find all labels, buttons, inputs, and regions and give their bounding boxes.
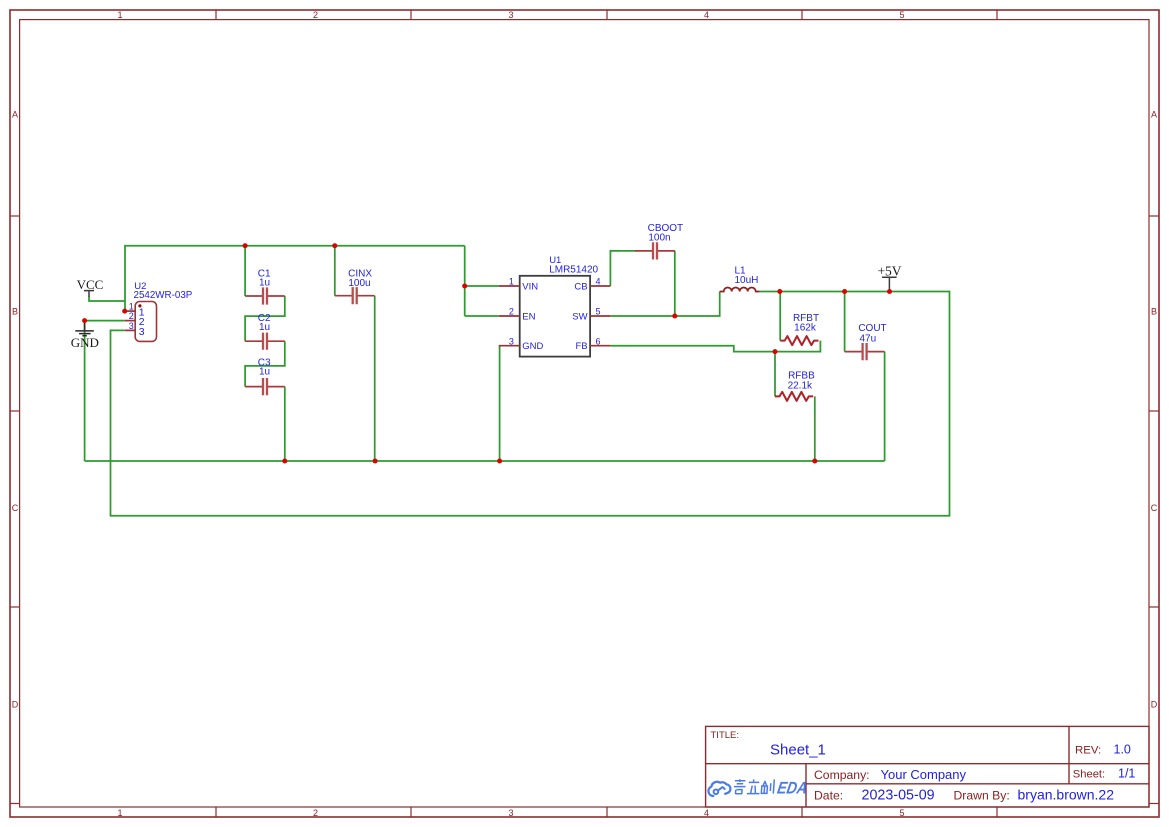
capacitor C3	[245, 378, 285, 395]
IC U1 pin names	[522, 281, 543, 352]
connector U2 pin stubs 1 2 3	[125, 311, 135, 330]
wire VCC to pin1 riser	[89, 297, 125, 302]
svg-text:4: 4	[704, 10, 709, 20]
svg-text:5: 5	[899, 10, 904, 20]
svg-text:3: 3	[508, 808, 513, 818]
IC U1 pin numbers	[509, 277, 601, 347]
svg-text:2: 2	[509, 307, 514, 317]
capacitor COUT	[845, 343, 885, 360]
svg-text:VIN: VIN	[522, 281, 538, 292]
border row ticks right	[1149, 216, 1159, 804]
svg-text:+5V: +5V	[877, 263, 901, 278]
svg-text:1: 1	[509, 277, 514, 287]
wire CB to CBOOT	[610, 251, 636, 286]
svg-text:1u: 1u	[259, 278, 270, 289]
svg-text:C: C	[1151, 503, 1158, 513]
wire CINX to ground rail	[374, 296, 376, 461]
wire to U1 VIN pin	[465, 285, 499, 287]
svg-text:A: A	[12, 110, 18, 120]
wire C1 to C2	[245, 296, 285, 341]
svg-text:D: D	[1151, 700, 1158, 710]
svg-text:1: 1	[117, 808, 122, 818]
wire CINX riser	[334, 246, 336, 296]
wire COUT to ground rail	[884, 352, 886, 461]
border column ticks top	[216, 10, 997, 20]
IC U1 pin stubs	[499, 286, 611, 346]
svg-text:2542WR-03P: 2542WR-03P	[134, 290, 193, 301]
capacitor C2	[245, 333, 285, 350]
wire ground rail	[85, 460, 885, 462]
svg-text:10uH: 10uH	[735, 275, 759, 286]
svg-text:D: D	[12, 700, 19, 710]
logo cloud icon	[708, 782, 730, 796]
IC U1 body	[520, 276, 590, 357]
wire U1 GND to ground rail	[499, 346, 501, 461]
ground symbol GND	[71, 321, 99, 350]
svg-text:A: A	[1151, 110, 1157, 120]
svg-text:5: 5	[595, 307, 600, 317]
border column labels bottom	[117, 808, 904, 818]
connector U2 outside pin numbers	[129, 301, 134, 331]
svg-text:bryan.brown.22: bryan.brown.22	[1018, 787, 1115, 803]
wire C2 to C3	[245, 341, 285, 386]
svg-text:VCC: VCC	[77, 277, 104, 292]
title block outline	[706, 726, 1149, 807]
svg-text:B: B	[1151, 307, 1157, 317]
svg-text:22.1k: 22.1k	[788, 381, 813, 392]
wire VIN drop to pin1/pin2	[464, 246, 466, 316]
svg-text:Sheet:: Sheet:	[1073, 768, 1105, 780]
border row labels right	[1151, 110, 1158, 710]
svg-text:TITLE:: TITLE:	[711, 730, 740, 741]
border row labels left	[12, 110, 19, 710]
wire C3 to ground rail	[284, 387, 286, 461]
wire COUT riser	[844, 292, 846, 352]
border column ticks bottom	[216, 807, 997, 817]
svg-text:EN: EN	[522, 311, 535, 322]
svg-text:GND: GND	[522, 341, 543, 352]
wire FB to divider	[610, 341, 820, 352]
wire RFBB top	[774, 352, 776, 397]
inductor L1	[720, 288, 760, 292]
resistor RFBT	[780, 336, 818, 345]
connector U2 body	[135, 302, 156, 342]
svg-text:100u: 100u	[348, 278, 370, 289]
svg-text:1.0: 1.0	[1114, 743, 1131, 757]
svg-text:2023-05-09: 2023-05-09	[862, 788, 935, 804]
svg-text:4: 4	[595, 277, 600, 287]
svg-text:100n: 100n	[648, 232, 670, 243]
svg-text:5: 5	[899, 808, 904, 818]
svg-text:C: C	[12, 503, 19, 513]
svg-text:47u: 47u	[859, 333, 876, 344]
wire RFBT riser	[779, 292, 781, 341]
svg-text:3: 3	[509, 336, 514, 346]
svg-text:3: 3	[508, 10, 513, 20]
svg-text:CB: CB	[574, 281, 587, 292]
svg-text:1: 1	[129, 301, 134, 311]
wire GND to pin2	[85, 320, 125, 322]
svg-text:1: 1	[117, 10, 122, 20]
svg-text:Drawn By:: Drawn By:	[954, 789, 1010, 803]
svg-text:2: 2	[129, 311, 134, 321]
power flag +5V	[877, 263, 901, 291]
svg-text:Sheet_1: Sheet_1	[770, 742, 826, 759]
capacitor C1	[245, 287, 285, 304]
svg-text:EDA: EDA	[776, 780, 809, 798]
wire RFBB to ground rail	[814, 396, 816, 461]
wire SW to L1	[610, 292, 719, 317]
border row ticks left	[10, 216, 20, 804]
svg-text:GND: GND	[71, 335, 99, 350]
resistor RFBB	[775, 392, 813, 401]
svg-text:4: 4	[704, 808, 709, 818]
svg-text:6: 6	[595, 336, 600, 346]
svg-text:REV:: REV:	[1075, 745, 1101, 757]
svg-text:Date:: Date:	[814, 789, 843, 803]
svg-text:FB: FB	[575, 341, 587, 352]
svg-text:3: 3	[129, 321, 134, 331]
power flag VCC	[77, 277, 104, 297]
svg-text:1u: 1u	[259, 322, 270, 333]
svg-text:B: B	[12, 307, 18, 317]
wire C1 riser	[244, 246, 246, 296]
wire CBOOT to SW node	[674, 251, 676, 316]
capacitor CINX	[335, 287, 375, 304]
capacitor CBOOT	[635, 242, 675, 259]
wire GND drop	[84, 321, 86, 461]
svg-text:Company:: Company:	[814, 768, 870, 782]
svg-text:1/1: 1/1	[1118, 766, 1135, 780]
connector U2 inside pin numbers	[139, 307, 145, 338]
logo text 嘉立创 (stylised strokes)	[733, 779, 774, 794]
svg-text:3: 3	[139, 326, 145, 338]
svg-text:2: 2	[313, 808, 318, 818]
border column labels top	[117, 10, 904, 20]
wire to U1 EN pin	[465, 315, 499, 317]
wire +5V rail and return loop	[111, 292, 950, 516]
svg-text:1u: 1u	[259, 367, 270, 378]
junction dots	[82, 243, 892, 463]
wire VIN top rail	[125, 246, 465, 311]
svg-text:LMR51420: LMR51420	[549, 265, 598, 276]
svg-text:162k: 162k	[794, 322, 817, 333]
svg-text:SW: SW	[572, 311, 587, 322]
svg-text:Your Company: Your Company	[881, 767, 967, 782]
svg-text:2: 2	[313, 10, 318, 20]
